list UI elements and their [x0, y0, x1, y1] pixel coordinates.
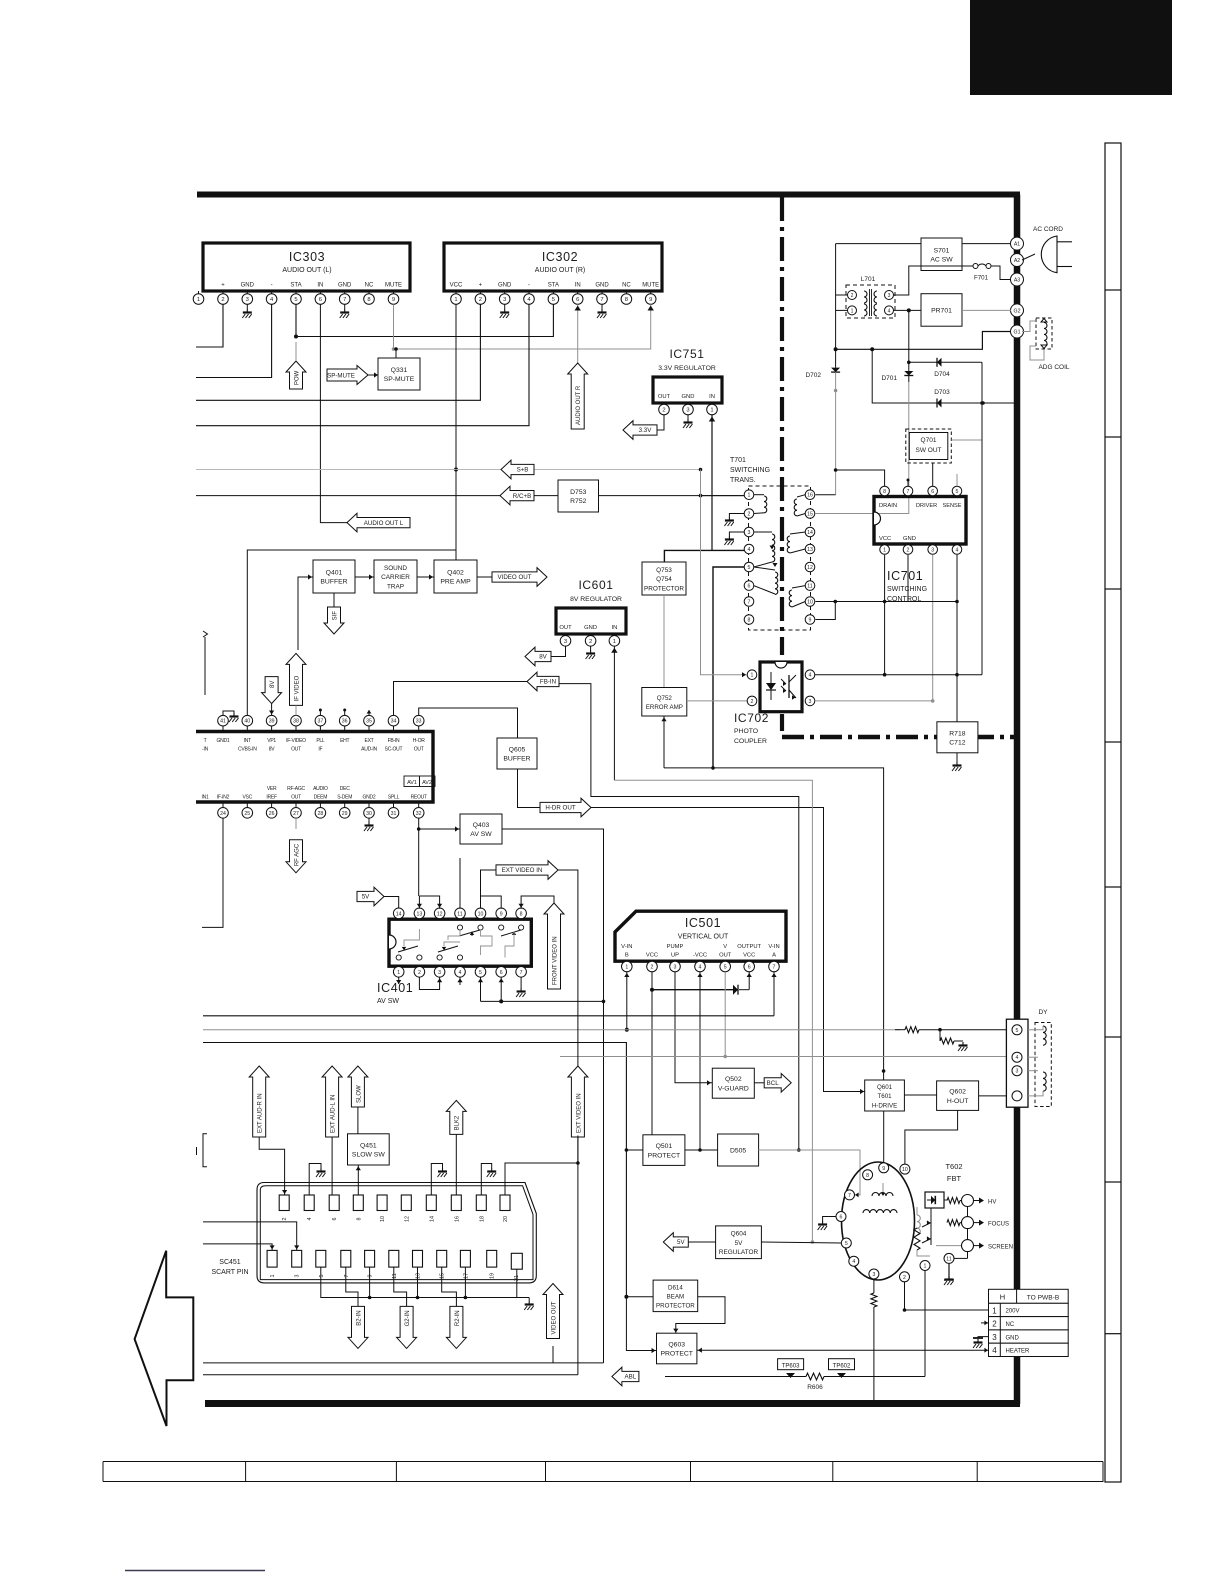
ground at jungle pin41 — [223, 711, 239, 722]
IC702 pin circles — [747, 670, 815, 706]
svg-text:5: 5 — [1016, 1028, 1019, 1034]
schematic border (thick top edge) — [197, 192, 1020, 198]
wire Q604 to FBT pin5 — [761, 1242, 841, 1243]
wire PR701 to G2 — [962, 309, 1011, 311]
svg-text:INT: INT — [244, 738, 252, 744]
flag 8V down to jungle pin39 — [262, 677, 282, 716]
FBT internal windings — [852, 1183, 930, 1256]
svg-text:9: 9 — [392, 297, 395, 303]
wire IC303 pin2 to left edge — [196, 304, 223, 347]
wire Q753 box down to Q752 — [663, 595, 665, 688]
resistor R606 — [665, 1373, 925, 1391]
svg-text:IC401: IC401 — [377, 981, 413, 995]
svg-text:24: 24 — [220, 811, 226, 817]
svg-text:R2-IN: R2-IN — [455, 1310, 461, 1326]
ground at H pin3 — [973, 1337, 989, 1348]
svg-text:AV SW: AV SW — [470, 831, 492, 838]
scart ground bus — [321, 1267, 534, 1310]
svg-text:3: 3 — [564, 639, 567, 645]
svg-text:D701: D701 — [881, 375, 897, 382]
svg-text:FB-IN: FB-IN — [388, 738, 400, 744]
svg-text:STA: STA — [290, 283, 301, 289]
svg-text:MUTE: MUTE — [385, 283, 402, 289]
wire Q402 to VIDEO OUT flag — [477, 576, 492, 578]
svg-text:Q502: Q502 — [725, 1076, 742, 1083]
svg-text:AUD-IN: AUD-IN — [361, 747, 377, 753]
svg-text:31: 31 — [391, 811, 397, 817]
svg-text:4: 4 — [459, 970, 462, 976]
svg-text:9: 9 — [649, 297, 652, 303]
flag IF VIDEO up from jungle pin38 — [286, 653, 306, 715]
svg-text:AUDIO: AUDIO — [313, 786, 328, 792]
svg-text:16: 16 — [807, 493, 813, 499]
wire IC303 pin6 to AUDIO OUT L flag — [320, 304, 347, 522]
DY connector — [1006, 1009, 1048, 1107]
IC302 pin circles 1-9 — [451, 294, 656, 305]
flag BLK2 — [446, 1100, 466, 1134]
flag B2-IN — [348, 1306, 368, 1348]
ground at T701 pin3 — [724, 532, 744, 545]
svg-text:EXT AUD-R IN: EXT AUD-R IN — [258, 1093, 264, 1133]
svg-text:DEEM: DEEM — [314, 795, 328, 801]
wire MUTE bus to IC302 pin9 — [392, 304, 654, 351]
wire IC501 pin7 to bus — [771, 972, 776, 1016]
wire jungle pin32 to Q403 — [417, 818, 460, 832]
svg-text:6: 6 — [748, 584, 751, 590]
svg-text:10: 10 — [478, 911, 484, 917]
svg-text:Q331: Q331 — [391, 367, 408, 374]
svg-text:R606: R606 — [807, 1384, 823, 1391]
svg-text:8V: 8V — [270, 681, 276, 688]
regulator IC751 3.3V — [653, 347, 722, 405]
svg-text:28: 28 — [318, 811, 324, 817]
svg-text:6: 6 — [840, 1215, 843, 1221]
svg-text:IC702: IC702 — [734, 711, 769, 725]
svg-text:BUFFER: BUFFER — [320, 579, 347, 586]
cut mark bracket lower — [197, 1134, 208, 1167]
ground at scart pin18 wire — [481, 1164, 496, 1196]
svg-text:14: 14 — [429, 1216, 435, 1222]
svg-text:PR701: PR701 — [931, 308, 952, 315]
svg-text:6: 6 — [748, 965, 751, 971]
svg-text:40: 40 — [244, 719, 250, 725]
wire IC501 pin1 to bus — [624, 972, 629, 1032]
svg-text:1: 1 — [751, 673, 754, 679]
flag EXT VIDEO IN scart — [568, 1066, 588, 1137]
svg-text:POW: POW — [294, 370, 300, 385]
bus wire y1016 — [203, 1015, 774, 1017]
svg-text:8: 8 — [866, 1173, 869, 1179]
flag R2-IN — [446, 1306, 466, 1348]
svg-text:CARRIER: CARRIER — [381, 574, 410, 581]
svg-text:5: 5 — [845, 1241, 848, 1247]
wire T701 pin9 to right — [816, 602, 836, 620]
svg-text:SWITCHING: SWITCHING — [887, 586, 927, 593]
wire EXT VIDEO IN to IC401 pin10 — [481, 870, 497, 896]
svg-text:SCART PIN: SCART PIN — [211, 1269, 248, 1276]
terminal A1 — [1011, 237, 1024, 250]
wire FB-IN elbow to deflection — [559, 684, 801, 1152]
svg-text:3: 3 — [1016, 1069, 1019, 1075]
svg-text:8V REGULATOR: 8V REGULATOR — [570, 596, 622, 603]
svg-text:AUDIO OUT R: AUDIO OUT R — [576, 385, 582, 425]
svg-text:7: 7 — [748, 600, 751, 606]
svg-text:NC: NC — [365, 283, 374, 289]
svg-text:1: 1 — [613, 639, 616, 645]
wire EXT AUD-L to pin6 — [332, 1137, 334, 1195]
wire into IC401 pin11 — [459, 858, 461, 909]
SCART label — [211, 1259, 248, 1276]
svg-text:VP1: VP1 — [267, 738, 276, 744]
svg-text:D614: D614 — [668, 1284, 683, 1291]
bus wire y1057 gray — [560, 1056, 1006, 1058]
svg-text:GND: GND — [498, 283, 512, 289]
svg-text:+: + — [479, 283, 483, 289]
jungle IC top/bottom box (cut at page edge) — [196, 732, 433, 803]
deflection yoke coils — [1028, 1023, 1051, 1107]
svg-text:SP-MUTE: SP-MUTE — [384, 376, 415, 383]
svg-text:GND2: GND2 — [363, 795, 376, 801]
wire IC701 pin1 down — [884, 555, 886, 675]
wire IC302 pin4 to left edge — [196, 304, 529, 425]
svg-text:20: 20 — [503, 1216, 509, 1222]
svg-text:2: 2 — [903, 1275, 906, 1281]
svg-text:GND: GND — [338, 283, 352, 289]
H drive Q601 T601 box — [865, 1080, 905, 1111]
error amp Q752 box — [642, 688, 687, 717]
wire IC303 pin4 to left edge — [196, 304, 272, 377]
line filter transformer L701 — [846, 276, 895, 318]
svg-text:5: 5 — [724, 965, 727, 971]
svg-text:VCC: VCC — [450, 283, 463, 289]
footer underline mark — [125, 1570, 265, 1572]
svg-text:H: H — [1000, 1293, 1005, 1302]
svg-text:5: 5 — [552, 297, 555, 303]
svg-text:GND: GND — [682, 394, 695, 400]
wire into IC401 pin8 — [519, 896, 555, 909]
svg-text:41: 41 — [220, 719, 226, 725]
flag R/C+B — [500, 486, 534, 505]
svg-text:V: V — [723, 944, 727, 950]
wire into IC401 pin9-10 — [481, 896, 502, 909]
wire Q401 bus — [247, 550, 456, 716]
svg-text:+: + — [221, 283, 225, 289]
wire IC702 pin3 right — [815, 699, 935, 703]
wire vertical IC302 VCC to Q402 — [455, 470, 457, 551]
degauss ADG COIL — [1022, 318, 1070, 371]
svg-text:BLK2: BLK2 — [455, 1115, 461, 1130]
svg-text:2: 2 — [479, 297, 482, 303]
svg-text:A2: A2 — [1014, 258, 1020, 264]
svg-text:Q451: Q451 — [360, 1142, 377, 1149]
svg-text:VIDEO OUT: VIDEO OUT — [551, 1301, 557, 1334]
svg-text:13: 13 — [416, 1273, 422, 1279]
svg-text:TO PWB-B: TO PWB-B — [1027, 1295, 1060, 1302]
cut mark bracket upper — [203, 631, 208, 695]
wire IC702 pin4 right — [815, 673, 982, 677]
svg-text:H-OUT: H-OUT — [947, 1098, 969, 1105]
diode D704 on wire — [907, 358, 980, 378]
wire IC501 pin5 down — [723, 972, 727, 1058]
svg-text:8: 8 — [748, 618, 751, 624]
svg-text:34: 34 — [391, 719, 397, 725]
wire Q451 to pin8 — [356, 1165, 361, 1195]
svg-text:4: 4 — [852, 1259, 855, 1265]
connector H TO PWB-B table — [989, 1289, 1069, 1356]
svg-text:NC: NC — [1006, 1322, 1015, 1328]
svg-text:-: - — [271, 283, 273, 289]
svg-text:AUDIO OUT (L): AUDIO OUT (L) — [282, 267, 331, 274]
svg-text:10: 10 — [380, 1216, 386, 1222]
svg-text:IC751: IC751 — [669, 347, 704, 361]
wire ext video scart — [558, 870, 578, 1375]
svg-text:OUT: OUT — [414, 747, 424, 753]
svg-text:2: 2 — [851, 293, 854, 299]
svg-text:BUFFER: BUFFER — [503, 756, 530, 763]
svg-text:EXT: EXT — [365, 738, 374, 744]
svg-text:SW OUT: SW OUT — [916, 447, 942, 454]
svg-text:3: 3 — [246, 297, 249, 303]
wire T701 pin5 down-left — [713, 567, 744, 768]
SCREEN potentiometer — [922, 1236, 1013, 1251]
svg-text:FOCUS: FOCUS — [988, 1222, 1009, 1228]
photo coupler IC702 box — [760, 662, 802, 712]
wire IC501 pin2 to pin6 with diode — [650, 972, 752, 1090]
svg-text:GND: GND — [595, 283, 609, 289]
svg-text:PROTECT: PROTECT — [648, 1152, 680, 1159]
svg-text:IN: IN — [575, 283, 581, 289]
fuse F701 — [962, 264, 991, 282]
svg-text:G1: G1 — [1014, 330, 1021, 336]
diode D703 on wire — [872, 349, 1014, 407]
switch S701 AC SW box — [921, 238, 962, 271]
wire L701 pin4 to PR701 — [894, 308, 922, 312]
test point TP602 — [829, 1359, 855, 1378]
svg-text:GND1: GND1 — [217, 738, 230, 744]
svg-text:7: 7 — [773, 965, 776, 971]
svg-text:BEAM: BEAM — [667, 1293, 685, 1300]
svg-text:MUTE: MUTE — [642, 283, 659, 289]
ground at jungle pin30 — [364, 818, 374, 831]
wire bus into Q501 — [626, 1149, 643, 1151]
svg-text:25: 25 — [244, 811, 250, 817]
wire IC401 pin2-3 loop — [419, 977, 442, 989]
flag 8V — [525, 647, 551, 666]
svg-text:EXT AUD-L IN: EXT AUD-L IN — [331, 1095, 337, 1133]
wire into H pin2 — [981, 1321, 989, 1326]
diode D505 box — [718, 1134, 759, 1166]
svg-text:1: 1 — [197, 297, 200, 303]
svg-text:7: 7 — [344, 1275, 350, 1278]
wire SP-MUTE to Q331 — [368, 372, 378, 377]
wire IC701 pin8 drain to T701 — [834, 468, 885, 486]
wire SLOW to Q451 — [357, 1107, 359, 1134]
wire Q603 right — [697, 1348, 989, 1353]
svg-text:STA: STA — [548, 283, 559, 289]
wire EXT AUD-R to pin2 — [259, 1137, 287, 1195]
ground at IC303 pin7 — [340, 304, 350, 318]
wire jungle pin24 to left edge — [202, 818, 223, 927]
wire D505 right — [759, 1150, 861, 1197]
svg-text:PROTECTOR: PROTECTOR — [644, 585, 684, 592]
svg-text:D753: D753 — [570, 489, 586, 496]
wire trap to Q402 — [417, 574, 434, 579]
jungle pin35 stub — [367, 710, 372, 716]
svg-text:V-GUARD: V-GUARD — [718, 1085, 749, 1092]
wire IC701 pin2 down — [907, 555, 909, 602]
svg-text:GND: GND — [903, 536, 916, 542]
svg-text:B2-IN: B2-IN — [356, 1310, 362, 1325]
svg-text:AC SW: AC SW — [930, 256, 953, 263]
IC702 name label — [734, 711, 769, 745]
svg-text:39: 39 — [269, 719, 275, 725]
svg-text:R752: R752 — [570, 498, 586, 505]
svg-text:-IN: -IN — [202, 747, 209, 753]
svg-text:4: 4 — [699, 965, 702, 971]
diode D701 — [881, 310, 913, 382]
svg-text:Q401: Q401 — [326, 570, 343, 577]
svg-text:R/C+B: R/C+B — [513, 493, 531, 500]
svg-text:6: 6 — [931, 489, 934, 495]
bus wire y1375 — [203, 1374, 578, 1376]
svg-text:Q605: Q605 — [509, 747, 526, 754]
wire IC401 pin5-6 to bus — [478, 977, 604, 1003]
wire IC751 OUT to 3.3V flag — [657, 415, 664, 430]
wire FB-IN flag to jungle pin34 — [394, 682, 528, 721]
svg-text:5: 5 — [956, 489, 959, 495]
wire Q501 top — [651, 1090, 653, 1135]
IC701 name label — [887, 569, 927, 603]
svg-text:G2-IN: G2-IN — [405, 1310, 411, 1326]
wire Q601 to Q602 — [904, 1094, 936, 1096]
svg-text:3: 3 — [992, 1333, 997, 1342]
flag EXT AUD-L IN — [322, 1066, 342, 1137]
svg-text:10: 10 — [807, 600, 813, 606]
svg-text:14: 14 — [807, 530, 813, 536]
FOCUS potentiometer — [922, 1208, 1009, 1245]
wire left AC vertical — [834, 244, 838, 352]
svg-text:AV2: AV2 — [422, 780, 432, 786]
svg-text:2: 2 — [418, 970, 421, 976]
svg-text:D702: D702 — [805, 372, 821, 379]
svg-text:3: 3 — [674, 965, 677, 971]
bus wire y1030 gray — [203, 1029, 900, 1031]
flag FB-IN — [527, 672, 559, 691]
ground at IC401 pin7 — [516, 977, 526, 997]
svg-text:PROTECTOR: PROTECTOR — [656, 1303, 695, 1310]
svg-text:FBT: FBT — [947, 1174, 962, 1183]
svg-text:IREF: IREF — [266, 795, 277, 801]
svg-text:REGULATOR: REGULATOR — [719, 1249, 759, 1256]
wire into D614 — [624, 1295, 653, 1299]
flag AUDIO OUT R — [568, 363, 588, 429]
ground at scart pin4 wire — [309, 1164, 325, 1196]
svg-text:A3: A3 — [1014, 278, 1020, 284]
svg-text:VER: VER — [267, 786, 277, 792]
svg-text:9: 9 — [500, 911, 503, 917]
wire A2 to plug — [1022, 254, 1035, 260]
svg-text:8: 8 — [356, 1218, 362, 1221]
svg-text:H-DRIVE: H-DRIVE — [872, 1102, 897, 1109]
svg-text:200V: 200V — [1006, 1309, 1020, 1315]
wire FBT pin10 to Q602 — [905, 1110, 958, 1164]
svg-text:IC303: IC303 — [289, 250, 325, 264]
svg-text:6: 6 — [500, 970, 503, 976]
resistor on DY pin5 wire — [895, 1027, 1006, 1033]
svg-text:TRANS.: TRANS. — [730, 477, 756, 484]
svg-text:Q403: Q403 — [473, 822, 490, 829]
svg-text:COUPLER: COUPLER — [734, 738, 767, 745]
svg-text:6: 6 — [576, 297, 579, 303]
wire D702 cathode to T701 pin16 — [816, 391, 836, 495]
svg-text:3.3V REGULATOR: 3.3V REGULATOR — [658, 365, 716, 372]
svg-text:IF-VIDEO: IF-VIDEO — [286, 738, 306, 744]
svg-text:2: 2 — [221, 297, 224, 303]
svg-text:2: 2 — [651, 965, 654, 971]
wire FBT pin9 to Q601 — [883, 1111, 885, 1163]
svg-text:7: 7 — [907, 489, 910, 495]
svg-text:4: 4 — [809, 673, 812, 679]
wire Q331 to MUTE bus — [394, 347, 398, 358]
svg-text:EXT VIDEO IN: EXT VIDEO IN — [576, 1093, 582, 1133]
svg-text:13: 13 — [807, 547, 813, 553]
page connector big left arrow — [135, 1251, 194, 1426]
wire jungle pin33 to Q605 — [419, 708, 518, 738]
svg-text:5V: 5V — [735, 1240, 744, 1247]
flag 3.3V — [623, 421, 657, 440]
svg-text:1: 1 — [924, 1264, 927, 1270]
wire Q401 to trap — [355, 574, 374, 579]
svg-text:2: 2 — [662, 408, 665, 414]
svg-text:IF-IN2: IF-IN2 — [217, 795, 230, 801]
svg-text:IF: IF — [318, 747, 322, 753]
svg-text:8V: 8V — [269, 747, 276, 753]
wire ext video flag elbow — [481, 870, 497, 909]
ground at IC601 GND — [586, 646, 596, 659]
wire video out flag down — [552, 1346, 554, 1363]
flag 5V left — [663, 1233, 715, 1252]
svg-text:GND: GND — [584, 625, 597, 631]
svg-text:D703: D703 — [934, 389, 950, 396]
svg-text:4: 4 — [888, 308, 891, 314]
wire Q501 to D505 — [685, 1148, 718, 1152]
svg-text:27: 27 — [293, 811, 299, 817]
svg-text:2: 2 — [282, 1218, 288, 1221]
svg-text:15: 15 — [440, 1273, 446, 1279]
wire FBT pin2 to H table — [905, 1282, 989, 1310]
svg-text:IN1: IN1 — [201, 795, 209, 801]
svg-text:G2: G2 — [1014, 308, 1021, 314]
svg-text:ADG COIL: ADG COIL — [1038, 364, 1069, 371]
svg-text:26: 26 — [269, 811, 275, 817]
ground at IC751 GND — [683, 415, 693, 428]
svg-text:A: A — [772, 953, 776, 959]
svg-text:11: 11 — [807, 584, 812, 590]
wire BLK2 to pin16 — [455, 1134, 457, 1195]
wire Q752 down — [661, 716, 666, 768]
wire IC751 IN down — [709, 415, 715, 551]
wire IC701 pin4 down — [955, 555, 959, 722]
wire T701 pin1 from R/C+B — [699, 470, 745, 498]
svg-text:PUMP: PUMP — [667, 944, 684, 950]
svg-text:PHOTO: PHOTO — [734, 728, 758, 735]
svg-text:4: 4 — [748, 547, 751, 553]
svg-text:EXT VIDEO IN: EXT VIDEO IN — [502, 867, 543, 874]
svg-text:3: 3 — [686, 408, 689, 414]
svg-text:OUT: OUT — [719, 953, 732, 959]
svg-text:7: 7 — [600, 297, 603, 303]
H out Q602 box — [937, 1081, 979, 1111]
